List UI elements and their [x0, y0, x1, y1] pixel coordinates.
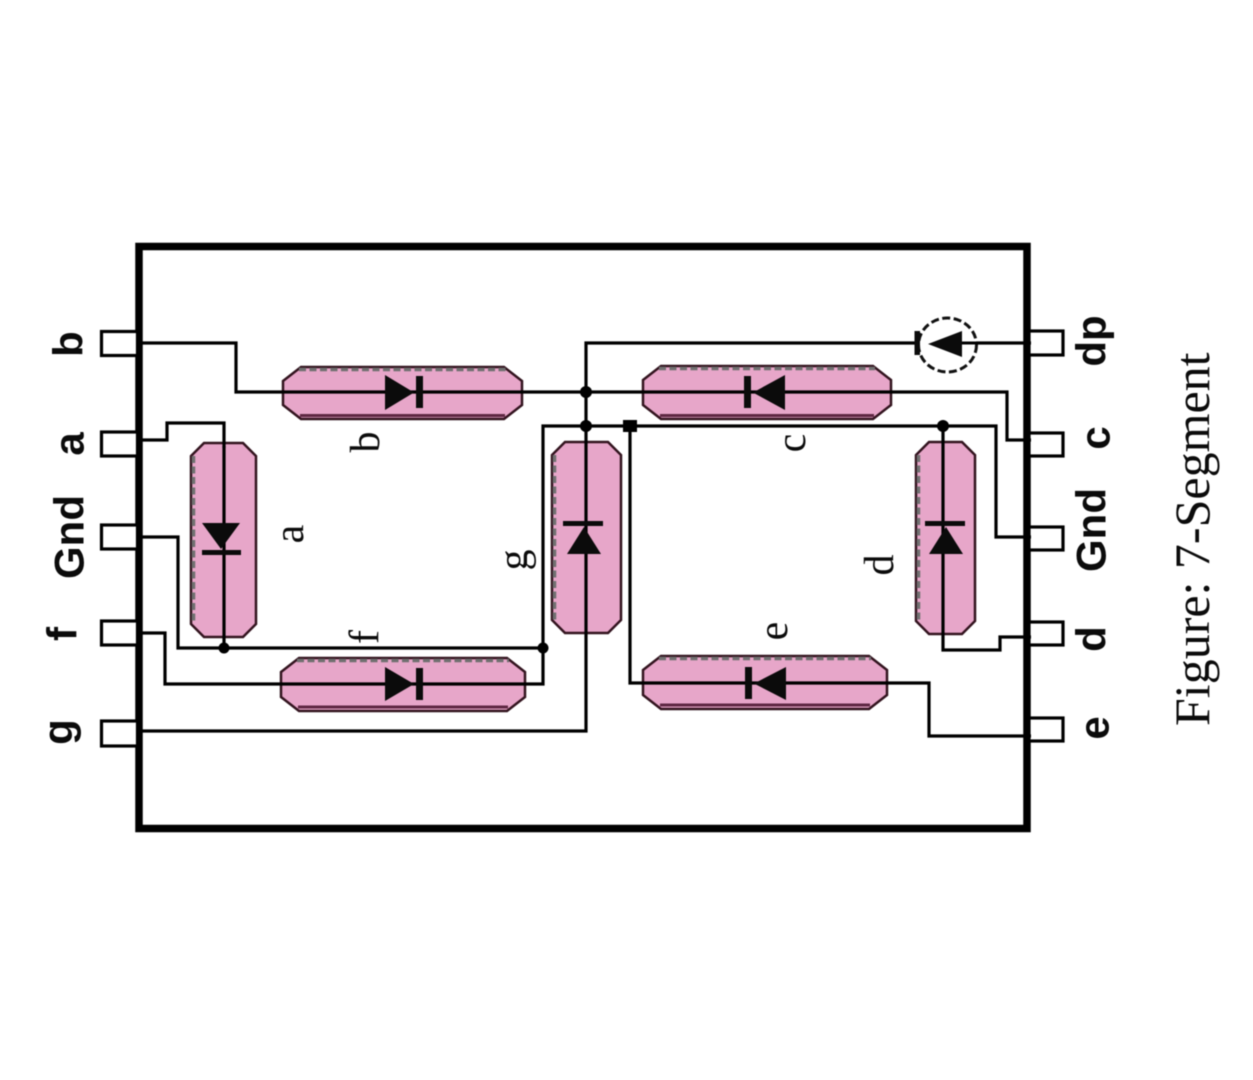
diode in segment d pointing up: [925, 521, 965, 554]
wire node N1 to segment c to pin c: [586, 392, 1031, 440]
segment d body: [916, 442, 975, 634]
junction node N2: [580, 420, 592, 432]
dp LED circle diode: [915, 318, 1011, 372]
svg-text:d: d: [1068, 626, 1115, 652]
svg-text:Figure: 7-Segment: Figure: 7-Segment: [1164, 352, 1220, 726]
segment c body: [643, 366, 891, 419]
svg-text:Gnd: Gnd: [1068, 488, 1115, 572]
segment b body: [283, 367, 522, 419]
diode in segment g pointing up: [563, 521, 603, 554]
pin g stub (left): [102, 721, 138, 746]
pin f stub (left): [102, 621, 138, 645]
pin c stub (right): [1029, 433, 1063, 456]
svg-text:a: a: [267, 524, 313, 543]
svg-text:g: g: [491, 550, 537, 571]
segment a body: [191, 443, 256, 637]
svg-text:f: f: [39, 626, 86, 641]
wire node N1 up and to dp LED to pin dp: [586, 343, 1031, 426]
wire common rail riser and top rail to right Gnd pin: [543, 426, 1031, 649]
wire pin Gnd left down to node A2 rail: [142, 537, 543, 648]
svg-text:c: c: [1072, 426, 1119, 449]
diode in segment f: [385, 667, 423, 701]
wire node N4 through segment d to pin d: [943, 426, 1031, 650]
svg-text:a: a: [46, 432, 93, 456]
diode in segment a pointing down: [202, 523, 241, 555]
junction node A2 segment a cathode: [219, 643, 230, 654]
wire pin f to segment f and up to node F2: [142, 633, 543, 684]
wire pin a to segment a top: [142, 423, 224, 448]
segment f body: [281, 658, 525, 711]
pin b stub (left): [102, 332, 138, 356]
svg-text:c: c: [769, 434, 815, 453]
pin d stub (right): [1029, 622, 1063, 645]
junction node F2: [538, 643, 549, 654]
pin e stub (right): [1029, 718, 1063, 741]
svg-text:b: b: [343, 432, 389, 453]
diode in segment b: [385, 375, 423, 410]
segment g body: [552, 442, 621, 633]
IC package outline: [139, 247, 1027, 829]
svg-text:e: e: [751, 622, 797, 641]
svg-text:g: g: [35, 719, 82, 745]
wire segment a internal anode line: [222, 446, 225, 648]
svg-text:d: d: [857, 555, 903, 576]
wire pin b to segment b and node N1: [142, 343, 586, 392]
diode in segment c: [744, 375, 785, 410]
svg-text:e: e: [1071, 716, 1118, 739]
segment e body: [643, 656, 887, 709]
pin dp stub (right): [1029, 331, 1063, 355]
pin a stub (left): [102, 432, 138, 456]
junction node N4: [937, 420, 949, 432]
pin Gnd stub (right): [1029, 527, 1063, 550]
svg-text:dp: dp: [1068, 315, 1115, 366]
diode in segment e: [745, 667, 786, 700]
svg-text:b: b: [45, 331, 92, 357]
wire pin g to segment g internal line: [142, 426, 586, 731]
junction node N3 square: [623, 420, 637, 432]
svg-text:f: f: [342, 630, 388, 644]
junction node N1: [580, 386, 592, 398]
wire node N3 down to segment e to pin e: [630, 426, 1031, 736]
pin Gnd stub (left): [102, 525, 138, 549]
svg-text:Gnd: Gnd: [46, 495, 93, 579]
